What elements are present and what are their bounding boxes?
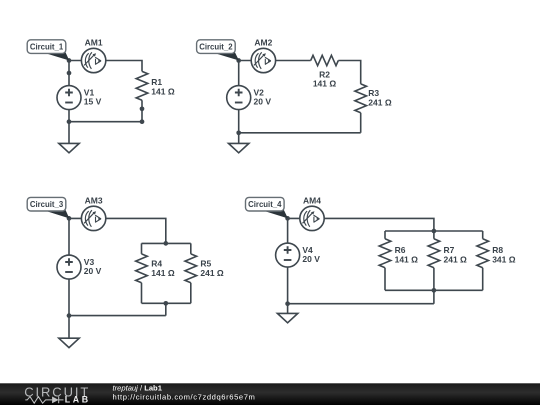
svg-text:341 Ω: 341 Ω xyxy=(492,255,516,265)
svg-text:241 Ω: 241 Ω xyxy=(444,255,468,265)
svg-text:141 Ω: 141 Ω xyxy=(395,255,419,265)
svg-text:Circuit_3: Circuit_3 xyxy=(30,200,64,209)
svg-text:AM2: AM2 xyxy=(254,37,272,47)
svg-text:141 Ω: 141 Ω xyxy=(151,268,175,278)
svg-text:AM1: AM1 xyxy=(85,37,103,47)
svg-text:treptauj / Lab1: treptauj / Lab1 xyxy=(113,383,163,392)
svg-text:20 V: 20 V xyxy=(254,97,272,107)
svg-text:http://circuitlab.com/c7zddq6r: http://circuitlab.com/c7zddq6r65e7m xyxy=(113,393,256,402)
svg-text:241 Ω: 241 Ω xyxy=(368,97,392,107)
svg-text:141 Ω: 141 Ω xyxy=(151,87,175,97)
svg-text:AM3: AM3 xyxy=(85,195,103,205)
svg-text:Circuit_2: Circuit_2 xyxy=(199,43,233,52)
svg-text:141 Ω: 141 Ω xyxy=(313,79,337,89)
svg-text:241 Ω: 241 Ω xyxy=(200,268,224,278)
svg-text:Circuit_4: Circuit_4 xyxy=(248,200,282,209)
svg-text:20 V: 20 V xyxy=(84,266,102,276)
svg-text:15 V: 15 V xyxy=(84,97,102,107)
svg-text:LAB: LAB xyxy=(65,395,91,405)
svg-text:20 V: 20 V xyxy=(302,254,320,264)
svg-text:AM4: AM4 xyxy=(303,195,321,205)
svg-text:Circuit_1: Circuit_1 xyxy=(30,43,64,52)
